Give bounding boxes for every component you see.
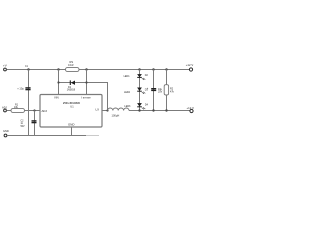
node R2/LX rail bbox=[165, 109, 167, 111]
op-amp U1 (regulator IC box) bbox=[40, 95, 102, 128]
svg-text:GND: GND bbox=[68, 122, 74, 126]
node rail/C3 bbox=[152, 68, 154, 70]
LED D2 bbox=[124, 74, 149, 80]
svg-text:LED2: LED2 bbox=[124, 91, 131, 94]
svg-text:25V: 25V bbox=[158, 91, 163, 94]
wire C3 column bbox=[153, 70, 155, 111]
node LX/freewheel bbox=[106, 109, 108, 111]
inductor L1 100uH bbox=[108, 108, 129, 118]
node ADJ/C2 bbox=[33, 109, 35, 111]
wire top rail bbox=[7, 69, 66, 71]
svg-text:100µH: 100µH bbox=[112, 114, 120, 118]
capacitor C1 bbox=[17, 66, 30, 91]
capacitor C2 bbox=[21, 121, 37, 128]
svg-text:ADJ: ADJ bbox=[42, 109, 48, 113]
node rail/Isense bbox=[85, 68, 87, 70]
wire Isense pin bbox=[86, 70, 88, 95]
resistor RS (sense, 0.1R) bbox=[66, 60, 80, 72]
wire top rail right of sense resistor bbox=[79, 69, 189, 71]
svg-text:LED1: LED1 bbox=[124, 75, 131, 78]
wire ADJ to IC bbox=[25, 110, 41, 112]
svg-text:+V: +V bbox=[3, 63, 7, 67]
terminal J4 (+12V, top right) bbox=[186, 63, 194, 71]
wire freewheel diode net bbox=[59, 83, 108, 111]
node rail/LED1 bbox=[138, 68, 140, 70]
node C3/LX rail bbox=[152, 109, 154, 111]
wire R2 column lower bbox=[166, 95, 168, 111]
node LED column/LX rail bbox=[138, 109, 140, 111]
svg-text:ZXLD1360: ZXLD1360 bbox=[63, 101, 80, 105]
LED D4 bbox=[124, 103, 148, 109]
wire LED column bbox=[139, 70, 141, 111]
svg-text:LED3: LED3 bbox=[124, 105, 131, 108]
svg-text:50V: 50V bbox=[21, 126, 26, 128]
svg-text:VIN: VIN bbox=[54, 95, 59, 99]
wire ADJ bbox=[7, 110, 11, 112]
svg-text:LX: LX bbox=[96, 108, 100, 112]
wire C2 branch bbox=[34, 111, 36, 136]
node VIN/diode bbox=[57, 81, 59, 83]
node rail/VIN bbox=[57, 68, 59, 70]
wire LX rail to output bbox=[129, 110, 190, 112]
wire GND pin bbox=[71, 127, 73, 136]
svg-text:+12 V: +12 V bbox=[187, 106, 195, 110]
wire R2 column bbox=[166, 70, 168, 85]
terminal J2 (ADJ input, left) bbox=[2, 105, 8, 112]
svg-text:I sense: I sense bbox=[81, 95, 91, 99]
node rail/R2 bbox=[165, 68, 167, 70]
capacitor C3 bbox=[147, 86, 163, 94]
wire bottom rail bbox=[7, 135, 86, 137]
node rail/C1 bbox=[27, 68, 29, 70]
terminal J5 (LED-, bottom right) bbox=[187, 106, 195, 113]
svg-text:GND: GND bbox=[3, 129, 9, 133]
wire C1 branch bbox=[28, 70, 30, 136]
node Isense/diode bbox=[85, 81, 87, 83]
terminal J3 (GND, bottom left) bbox=[3, 129, 9, 137]
resistor R1 bbox=[11, 103, 25, 112]
svg-text:ADJ: ADJ bbox=[2, 105, 8, 109]
svg-text:1N5819: 1N5819 bbox=[67, 89, 76, 92]
svg-text:+12 V: +12 V bbox=[186, 63, 194, 67]
diode D1 (freewheel, cathode left) bbox=[67, 80, 76, 91]
wire LX bbox=[102, 110, 108, 112]
wire VIN pin bbox=[58, 70, 60, 95]
svg-text:U1: U1 bbox=[70, 105, 74, 109]
svg-text:0.1R: 0.1R bbox=[68, 63, 74, 67]
LED D3 bbox=[124, 88, 149, 94]
wire bottom rail faint tail bbox=[86, 135, 99, 137]
terminal J1 (+V input, top left) bbox=[3, 63, 7, 71]
svg-text:+ 10µ: + 10µ bbox=[17, 87, 24, 91]
resistor R2 bbox=[164, 85, 174, 95]
